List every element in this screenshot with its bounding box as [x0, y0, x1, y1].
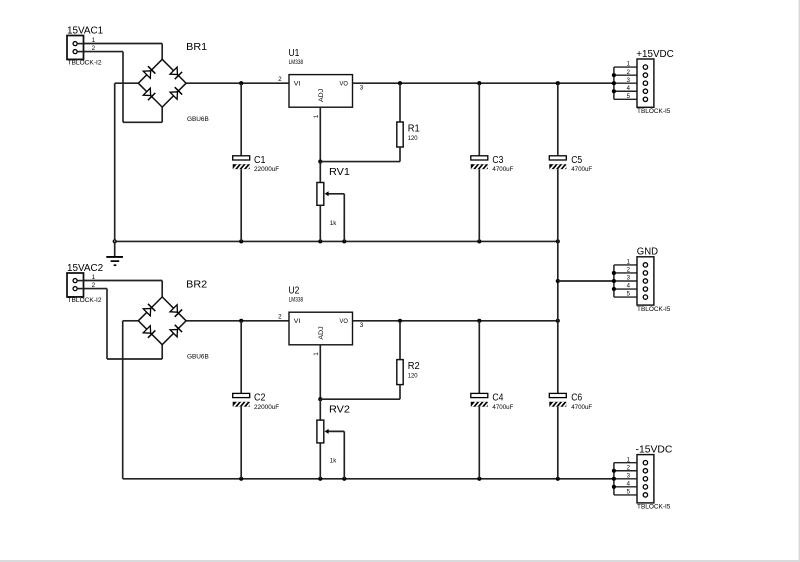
svg-text:VI: VI	[294, 318, 301, 325]
svg-text:15VAC2: 15VAC2	[67, 263, 104, 274]
svg-text:GBU6B: GBU6B	[187, 354, 209, 361]
svg-text:2: 2	[92, 282, 96, 289]
svg-text:3: 3	[360, 322, 364, 329]
svg-text:4700uF: 4700uF	[492, 404, 513, 411]
svg-text:2: 2	[278, 314, 282, 321]
svg-text:VO: VO	[340, 318, 348, 325]
svg-text:R2: R2	[408, 361, 420, 372]
svg-text:C4: C4	[492, 393, 503, 404]
svg-text:C3: C3	[492, 155, 503, 166]
svg-text:C6: C6	[571, 393, 582, 404]
svg-text:ADJ: ADJ	[318, 89, 325, 102]
svg-text:U2: U2	[289, 286, 300, 297]
svg-text:15VAC1: 15VAC1	[67, 26, 104, 37]
svg-text:4700uF: 4700uF	[492, 166, 513, 173]
svg-text:1: 1	[313, 114, 320, 118]
svg-text:GBU6B: GBU6B	[187, 116, 209, 123]
svg-text:C5: C5	[571, 155, 582, 166]
svg-text:C2: C2	[254, 393, 266, 404]
svg-text:TBLOCK-I2: TBLOCK-I2	[68, 60, 102, 67]
svg-text:TBLOCK-I5: TBLOCK-I5	[637, 504, 671, 511]
svg-text:1: 1	[313, 352, 320, 356]
svg-text:C1: C1	[254, 155, 266, 166]
svg-text:2: 2	[278, 76, 282, 83]
svg-text:22000uF: 22000uF	[254, 404, 279, 411]
svg-text:TBLOCK-I5: TBLOCK-I5	[637, 306, 671, 313]
svg-text:1: 1	[92, 274, 96, 281]
svg-text:TBLOCK-I2: TBLOCK-I2	[68, 297, 102, 304]
svg-text:2: 2	[92, 45, 96, 52]
svg-text:1k: 1k	[330, 457, 337, 464]
svg-text:BR2: BR2	[186, 279, 207, 290]
svg-text:RV1: RV1	[329, 167, 350, 178]
svg-text:4700uF: 4700uF	[571, 166, 592, 173]
svg-text:U1: U1	[289, 48, 300, 59]
svg-text:R1: R1	[408, 123, 420, 134]
svg-text:3: 3	[360, 85, 364, 92]
svg-text:LM338: LM338	[289, 59, 304, 66]
svg-text:RV2: RV2	[329, 405, 350, 416]
svg-text:VI: VI	[294, 81, 301, 88]
svg-text:VO: VO	[340, 81, 348, 88]
svg-text:+15VDC: +15VDC	[636, 49, 674, 60]
svg-text:GND: GND	[637, 247, 658, 258]
svg-text:BR1: BR1	[186, 42, 207, 53]
svg-text:LM338: LM338	[289, 297, 304, 304]
svg-text:1k: 1k	[330, 220, 337, 227]
svg-text:4700uF: 4700uF	[571, 404, 592, 411]
svg-text:1: 1	[92, 37, 96, 44]
svg-text:22000uF: 22000uF	[254, 166, 279, 173]
svg-text:120: 120	[408, 373, 418, 380]
svg-text:120: 120	[408, 135, 418, 142]
svg-text:-15VDC: -15VDC	[636, 444, 673, 455]
svg-text:TBLOCK-I5: TBLOCK-I5	[637, 108, 671, 115]
svg-text:ADJ: ADJ	[318, 326, 325, 339]
